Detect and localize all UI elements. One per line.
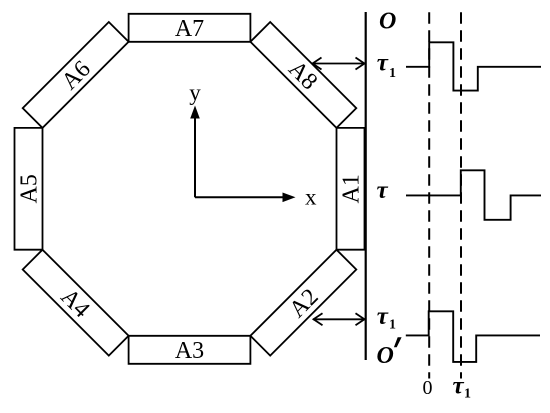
svg-text:τ: τ <box>377 177 389 204</box>
svg-text:O: O <box>377 343 394 369</box>
svg-text:τ: τ <box>453 373 465 400</box>
svg-text:x: x <box>305 185 317 210</box>
svg-text:1: 1 <box>464 387 471 402</box>
svg-text:1: 1 <box>389 66 396 81</box>
svg-text:O: O <box>379 9 396 35</box>
svg-text:τ: τ <box>377 49 389 76</box>
svg-text:A3: A3 <box>175 338 204 364</box>
svg-text:A7: A7 <box>175 16 204 42</box>
svg-text:y: y <box>189 80 201 105</box>
svg-text:1: 1 <box>389 318 396 333</box>
svg-text:A1: A1 <box>339 174 365 203</box>
svg-text:A5: A5 <box>17 174 43 203</box>
svg-text:0: 0 <box>423 377 433 399</box>
svg-text:τ: τ <box>377 303 389 330</box>
